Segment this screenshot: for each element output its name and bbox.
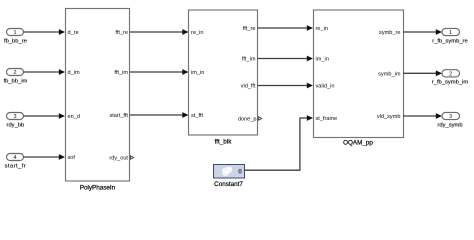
svg-text:0: 0 xyxy=(238,169,242,176)
svg-text:symb_re: symb_re xyxy=(379,30,400,36)
svg-text:1: 1 xyxy=(449,30,452,36)
svg-text:vld_fft: vld_fft xyxy=(241,84,256,90)
svg-text:fft_re: fft_re xyxy=(115,30,128,36)
svg-text:rdy_bb: rdy_bb xyxy=(7,123,25,129)
svg-text:fft_blk: fft_blk xyxy=(215,139,233,146)
svg-text:re_in: re_in xyxy=(191,30,203,36)
svg-text:rdy_symb: rdy_symb xyxy=(437,122,462,128)
svg-text:im_in: im_in xyxy=(316,57,329,63)
svg-text:fft_re: fft_re xyxy=(243,26,256,32)
svg-text:rdy_out: rdy_out xyxy=(109,156,128,162)
svg-text:d_re: d_re xyxy=(68,30,79,36)
svg-text:valid_in: valid_in xyxy=(316,84,335,90)
svg-text:2: 2 xyxy=(449,71,452,77)
svg-text:fb_bb_re: fb_bb_re xyxy=(4,39,27,45)
svg-text:d_im: d_im xyxy=(68,70,80,76)
svg-text:start_fft: start_fft xyxy=(109,113,128,119)
svg-text:st_fft: st_fft xyxy=(191,113,203,119)
svg-text:im_in: im_in xyxy=(191,70,204,76)
svg-text:done_p: done_p xyxy=(238,117,257,123)
svg-text:2: 2 xyxy=(13,70,16,76)
svg-text:PolyPhaseIn: PolyPhaseIn xyxy=(80,185,116,192)
svg-text:vld_symb: vld_symb xyxy=(377,114,401,120)
svg-text:fb_bb_im: fb_bb_im xyxy=(3,79,27,85)
svg-text:re_in: re_in xyxy=(316,26,328,32)
svg-text:en_d: en_d xyxy=(68,114,80,120)
svg-text:OQAM_pp: OQAM_pp xyxy=(343,140,373,147)
svg-text:sof: sof xyxy=(68,155,76,161)
svg-text:Constant7: Constant7 xyxy=(214,181,243,188)
svg-text:start_fr: start_fr xyxy=(5,164,27,170)
svg-text:4: 4 xyxy=(13,155,16,161)
svg-text:st_frame: st_frame xyxy=(316,116,338,122)
svg-text:3: 3 xyxy=(449,114,452,120)
svg-text:fft_im: fft_im xyxy=(114,70,128,76)
svg-text:1: 1 xyxy=(13,30,16,36)
svg-text:r_fb_symb_im: r_fb_symb_im xyxy=(432,80,469,86)
svg-text:fft_im: fft_im xyxy=(242,57,256,63)
svg-text:symb_im: symb_im xyxy=(378,71,401,77)
svg-text:r_fb_symb_re: r_fb_symb_re xyxy=(432,38,467,44)
svg-text:3: 3 xyxy=(13,114,16,120)
